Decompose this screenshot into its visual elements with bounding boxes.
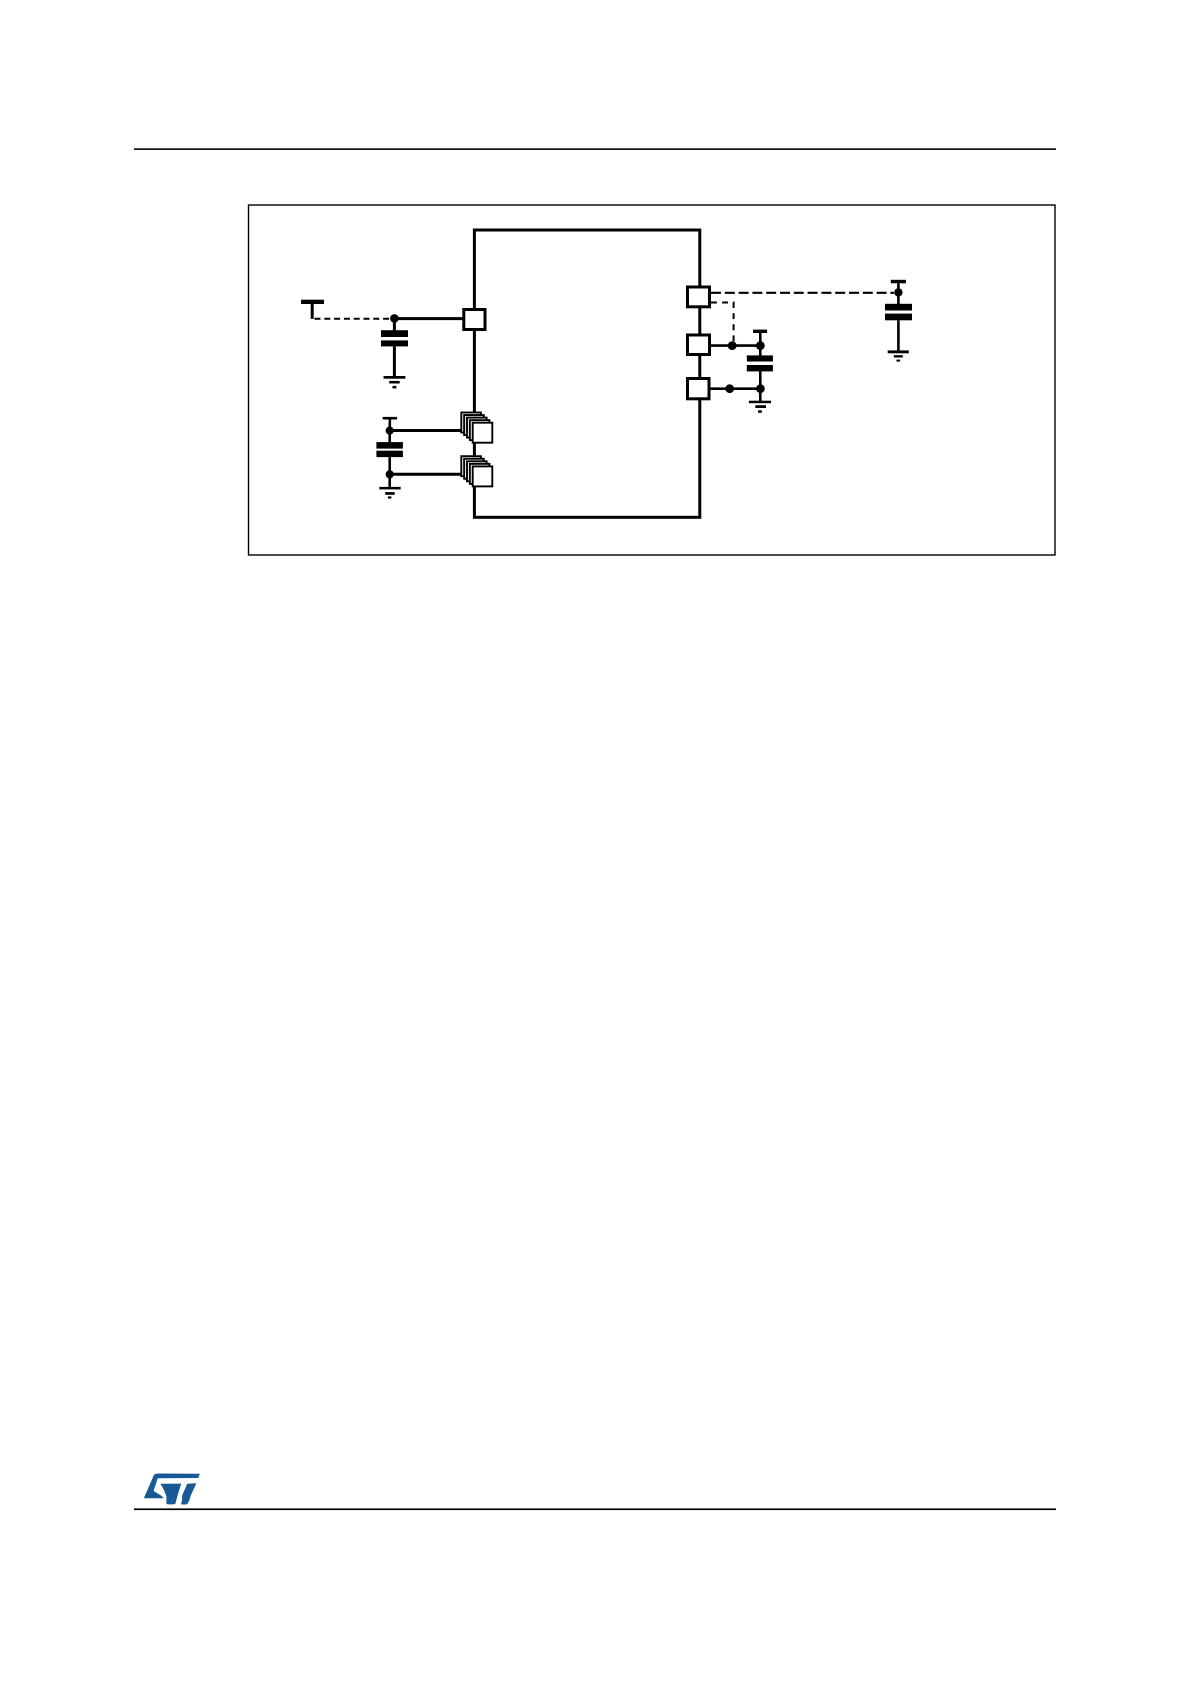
terminal T1 (input, far left): [301, 300, 324, 304]
header rule: [134, 148, 1056, 150]
figure frame: [249, 205, 1056, 555]
node H (junction dot, far right): [894, 288, 902, 296]
node F (junction dot): [725, 384, 734, 393]
node E (junction dot at C3 top): [756, 341, 765, 350]
terminal T2 (above C2): [383, 417, 398, 420]
capacitor C4 (far right): [897, 292, 900, 304]
terminal T4 (above C4, far right): [891, 280, 906, 284]
pin P1 (left): [464, 310, 485, 330]
wire: right pin 3 to ground node: [711, 387, 761, 390]
capacitor C1 (left): [393, 318, 396, 330]
ground G1: [384, 376, 406, 379]
ST logo: [144, 1474, 200, 1505]
wire: right pin 2 to cap node: [711, 344, 761, 347]
node B (junction dot): [386, 427, 394, 435]
terminal T3 (above C3): [753, 330, 767, 333]
node A (junction dot): [390, 314, 399, 323]
node G (junction dot at C3 bottom): [756, 384, 765, 393]
dashed wire: right pin 1 to far right node: [711, 292, 894, 294]
ground G4: [888, 350, 909, 353]
capacitor C2 (lower left): [388, 431, 391, 443]
wire: left cap node to left pin: [394, 317, 463, 320]
dashed wire: input terminal to left node: [315, 318, 395, 320]
pin P3 (right middle): [688, 335, 710, 355]
IC U1 body: [474, 230, 699, 517]
dashed wire: right pin 1 stub to mid node: [711, 303, 734, 345]
node D (junction dot on dashed stub): [728, 341, 737, 350]
footer rule: [134, 1508, 1056, 1510]
pin stack 1 (multiple pins): [461, 413, 492, 443]
node C (junction dot): [386, 470, 394, 478]
ground G2: [379, 487, 400, 490]
ground G3: [759, 389, 762, 401]
wire: lower left cap node to pin stack 2: [390, 473, 462, 476]
pin P2 (right top): [688, 287, 710, 307]
pin stack 2 (multiple pins): [461, 456, 492, 486]
pin P4 (right bottom): [688, 379, 710, 399]
wire: upper left cap node to pin stack 1: [390, 429, 462, 432]
capacitor C3 (right): [759, 346, 762, 356]
